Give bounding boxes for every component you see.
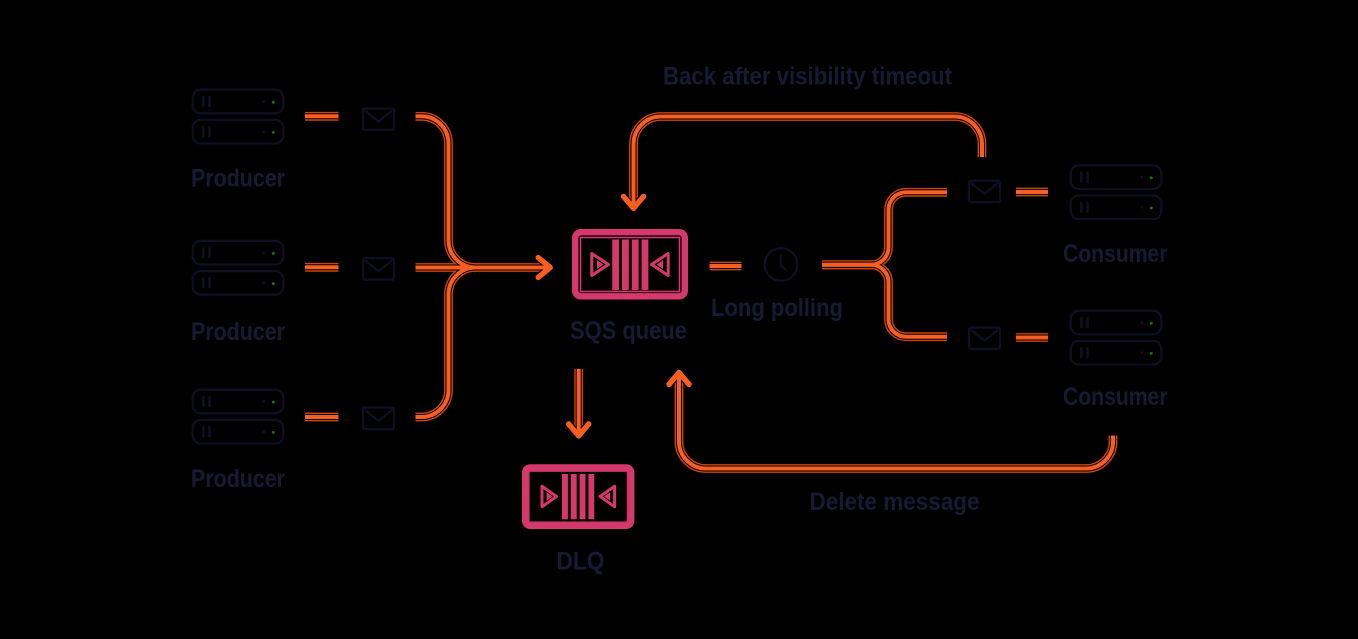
envelope message icon consumer bottom xyxy=(969,328,1000,350)
svg-text:SQS queue: SQS queue xyxy=(570,317,687,345)
svg-text:Producer: Producer xyxy=(191,465,285,493)
consumer C2 server icon xyxy=(1071,311,1162,365)
envelope message icon consumer top xyxy=(969,181,1000,203)
wire echo pass xyxy=(305,116,1113,468)
envelope message icon E2 xyxy=(363,258,394,280)
envelope message icon E1 xyxy=(363,108,394,130)
SQS queue icon xyxy=(575,232,685,296)
svg-text:Producer: Producer xyxy=(191,318,285,346)
DLQ queue icon xyxy=(525,467,631,526)
consumer C1 server icon xyxy=(1071,165,1162,219)
svg-text:Consumer: Consumer xyxy=(1063,240,1168,268)
svg-text:Consumer: Consumer xyxy=(1063,383,1168,411)
svg-text:Back after visibility timeout: Back after visibility timeout xyxy=(663,63,953,91)
producer P2 server icon xyxy=(193,241,284,295)
clock icon xyxy=(765,248,798,281)
svg-text:Delete message: Delete message xyxy=(810,488,980,516)
envelope message icon E3 xyxy=(363,408,394,430)
svg-text:DLQ: DLQ xyxy=(557,548,605,576)
svg-text:Producer: Producer xyxy=(191,164,285,192)
producer P1 server icon xyxy=(193,90,284,144)
wire mask pass xyxy=(305,116,1113,468)
svg-text:Long polling: Long polling xyxy=(711,294,843,322)
producer P3 server icon xyxy=(193,390,284,444)
wire core pass xyxy=(305,116,1113,468)
